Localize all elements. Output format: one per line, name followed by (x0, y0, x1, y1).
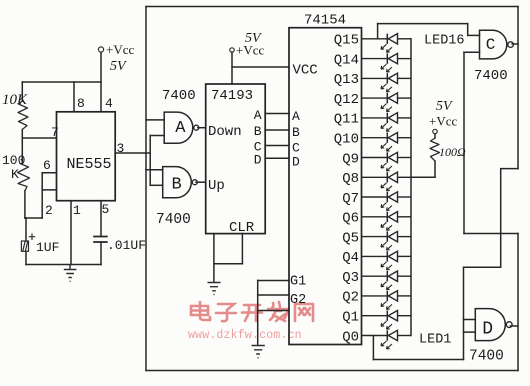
ground symbol (555, pin1 rail) (64, 265, 77, 282)
wire 100K bottom lead (24, 191, 26, 218)
svg-text:LED16: LED16 (424, 34, 465, 49)
gate U4C 7400 NAND C (480, 30, 507, 59)
svg-text:C: C (486, 36, 496, 54)
svg-text:100: 100 (2, 153, 25, 168)
svg-text:7400: 7400 (474, 68, 508, 84)
wire pin 6 (42, 172, 56, 174)
svg-text:5: 5 (102, 202, 110, 217)
svg-text:Q10: Q10 (334, 132, 359, 148)
LED9 on Q8 row: wire, cathode bar, triangle, arrows (362, 172, 412, 191)
watermark char 开 (242, 305, 262, 321)
svg-text:4: 4 (105, 96, 113, 111)
wire 1UF bottom lead (25, 252, 27, 265)
watermark char 网 (295, 304, 313, 321)
IC U1 NE555 body (57, 112, 116, 201)
wire jog right edge to inner vertical (501, 169, 518, 268)
wire 74193 CLR pin down (241, 234, 243, 264)
wire G2 (258, 294, 289, 296)
svg-text:74193: 74193 (211, 88, 253, 104)
wire pin 8 (73, 82, 75, 112)
svg-text:Q12: Q12 (334, 92, 359, 108)
wire data B 74193 to 74154 (265, 129, 289, 131)
resistor R2 100ohm zigzag (430, 138, 440, 161)
svg-text:A: A (254, 108, 262, 123)
svg-text:Q0: Q0 (342, 329, 359, 345)
wire pin 5 (100, 201, 102, 237)
svg-text:VCC: VCC (293, 63, 318, 79)
watermark char 电 (191, 302, 210, 320)
capacitor C1 1UF electrolytic plate (21, 241, 28, 251)
svg-text:1UF: 1UF (36, 240, 59, 255)
watermark char 发 (268, 302, 288, 321)
svg-text:1: 1 (73, 203, 81, 218)
resistor R2 100ohm leads (434, 134, 436, 178)
svg-text:Q2: Q2 (342, 290, 359, 306)
LED5 on Q4 row: wire, cathode bar, triangle, arrows (362, 251, 412, 270)
wire pin 3 output (115, 152, 150, 154)
wire pin 2 (42, 189, 56, 191)
wire gate D lower input (464, 331, 476, 333)
capacitor C1 plus sign (29, 234, 35, 241)
svg-text:LED1: LED1 (419, 333, 451, 348)
wire gate B lower input (150, 184, 163, 186)
wire data A 74193 to 74154 (265, 113, 289, 115)
svg-text:D: D (482, 320, 493, 340)
node +Vcc terminal (74193) (230, 48, 234, 52)
wire pin7 node down to 100K (21, 138, 23, 164)
svg-text:C: C (292, 141, 300, 156)
svg-text:100Ω: 100Ω (439, 145, 466, 159)
wire gate C lower input (464, 51, 480, 53)
svg-text:A: A (175, 119, 186, 138)
svg-text:Q14: Q14 (334, 52, 359, 68)
op... gate U4A 7400 NAND A (164, 112, 193, 143)
svg-text:D: D (254, 153, 262, 168)
LED12 on Q11 row: wire, cathode bar, triangle, arrows (362, 113, 412, 132)
svg-text:8: 8 (77, 96, 85, 111)
svg-text:7400: 7400 (469, 349, 504, 365)
svg-text:B: B (172, 176, 182, 195)
svg-text:G1: G1 (290, 275, 306, 290)
wire .01UF bottom lead (100, 242, 102, 265)
wire gate A upper input (146, 119, 164, 121)
svg-text:Q11: Q11 (334, 112, 359, 128)
wire pin 1 (70, 201, 72, 265)
svg-text:B: B (292, 125, 300, 140)
IC U3 74154 body (289, 28, 362, 345)
IC U2 74193 body (206, 84, 266, 234)
node +Vcc terminal (LED resistor) (433, 129, 437, 133)
wire Vcc top rail (555) (22, 81, 101, 83)
wire outer loop left edge (feedback bus) (145, 7, 147, 371)
wire gate B output to Up (196, 181, 206, 183)
LED14 on Q13 row: wire, cathode bar, triangle, arrows (362, 73, 412, 92)
wire data D 74193 to 74154 (265, 157, 289, 159)
LED3 on Q2 row: wire, cathode bar, triangle, arrows (362, 291, 412, 310)
svg-text:Q6: Q6 (342, 211, 359, 227)
svg-text:3: 3 (117, 141, 125, 156)
wire ground rail (555) (26, 264, 101, 266)
wire clock vertical to gates A,B (149, 136, 151, 186)
svg-text:.01UF: .01UF (107, 238, 146, 253)
svg-text:7: 7 (51, 125, 59, 140)
svg-text:7400: 7400 (156, 212, 191, 228)
LED2 on Q1 row: wire, cathode bar, triangle, arrows (362, 311, 412, 330)
wire gate D output (510, 325, 518, 327)
LED13 on Q12 row: wire, cathode bar, triangle, arrows (362, 93, 412, 112)
svg-text:Q4: Q4 (342, 250, 359, 266)
ground symbol (74193 CLR) (208, 283, 221, 295)
svg-text:Q1: Q1 (342, 310, 359, 326)
svg-text:10K: 10K (2, 92, 28, 108)
LED1 on Q0 row: wire, cathode bar, triangle, arrows (362, 330, 412, 349)
wire gate C output (512, 43, 518, 45)
svg-text:Q8: Q8 (342, 171, 359, 187)
wire G1 (258, 280, 289, 282)
wire pin6/pin2 tie vertical (41, 173, 43, 218)
svg-text:Q13: Q13 (334, 72, 359, 88)
svg-text:5V: 5V (245, 31, 262, 46)
wire data C 74193 to 74154 (265, 145, 289, 147)
svg-text:NE555: NE555 (67, 156, 112, 173)
LED7 on Q6 row: wire, cathode bar, triangle, arrows (362, 212, 412, 231)
wire gate D upper input (464, 319, 476, 321)
svg-text:Q5: Q5 (342, 230, 359, 246)
svg-text:Q7: Q7 (342, 191, 359, 207)
svg-text:K: K (11, 167, 19, 182)
svg-text:74154: 74154 (304, 13, 346, 29)
svg-text:CLR: CLR (229, 220, 255, 236)
svg-text:7400: 7400 (162, 88, 196, 104)
LED15 on Q14 row: wire, cathode bar, triangle, arrows (362, 53, 412, 72)
svg-text:2: 2 (45, 203, 53, 218)
wire 10K top lead (21, 82, 23, 101)
node +Vcc terminal (555) (98, 47, 103, 52)
ground symbol (74154 G1 G2) (252, 346, 265, 358)
wire drop to gate C upper input (467, 24, 469, 36)
wire latch crossover horizontal (464, 233, 518, 235)
wire gate A output to Down (198, 127, 206, 129)
svg-text:+Vcc: +Vcc (106, 42, 134, 57)
resistor R3 100K zigzag (18, 164, 30, 191)
wire gate C upper input (468, 34, 480, 36)
svg-text:G2: G2 (290, 293, 306, 308)
wire outer loop right edge lower (gate D output run) (517, 234, 519, 371)
LED11 on Q10 row: wire, cathode bar, triangle, arrows (362, 133, 412, 152)
wire outer loop top edge (146, 6, 518, 8)
wire +Vcc drop to 74193 (231, 52, 233, 84)
watermark char 子 (216, 304, 236, 321)
wire Vcc rail to 74154 (232, 66, 289, 68)
wire pin 7 (22, 137, 56, 139)
wire 74193 bottom pin to ground (213, 234, 215, 282)
wire tie below 74193 (214, 263, 243, 265)
wire outer loop bottom edge (146, 370, 518, 372)
LED10 on Q9 row: wire, cathode bar, triangle, arrows (362, 152, 412, 171)
capacitor C2 .01UF plates (93, 237, 108, 243)
wire Q0 to gate D horizontal (373, 359, 463, 361)
svg-text:Down: Down (208, 124, 242, 140)
svg-text:B: B (254, 124, 262, 139)
wire Q15 to gate C horizontal (378, 23, 468, 25)
resistor R1 10K zigzag (18, 101, 28, 130)
svg-text:Up: Up (208, 178, 225, 194)
LED4 on Q3 row: wire, cathode bar, triangle, arrows (362, 271, 412, 290)
gate U4B 7400 NAND B (163, 167, 192, 198)
wire 1UF top lead (25, 218, 27, 241)
wire gate C lower input feedback vertical (463, 52, 465, 233)
svg-text:www.dzkfw.com.cn: www.dzkfw.com.cn (188, 329, 302, 342)
wire gate B upper input (146, 169, 163, 171)
wire Q0 tap vertical (372, 336, 374, 360)
wire outer loop right edge upper (gate C output run) (517, 7, 519, 169)
svg-text:Q3: Q3 (342, 270, 359, 286)
LED8 on Q7 row: wire, cathode bar, triangle, arrows (362, 192, 412, 211)
wire G strobe third (258, 310, 289, 312)
wire +Vcc drop / pin 4 (100, 52, 102, 112)
svg-text:Q15: Q15 (334, 33, 359, 49)
wire G tie vertical to ground (257, 281, 259, 346)
svg-text:D: D (292, 155, 300, 170)
svg-text:Q9: Q9 (342, 151, 359, 167)
wire tie to cap node (25, 217, 42, 219)
svg-text:+Vcc: +Vcc (429, 114, 457, 129)
svg-text:A: A (292, 109, 300, 124)
wire gate A lower input (150, 135, 164, 137)
wire bus to resistor (411, 176, 435, 178)
wire Q15 tap vertical (377, 24, 379, 39)
svg-text:5V: 5V (436, 99, 453, 114)
wire LED anode bus (410, 39, 412, 336)
wire jog to gate D input (464, 267, 501, 359)
wire 10K bottom lead to pin7 node (21, 130, 23, 139)
LED16 on Q15 row: wire, cathode bar, triangle, arrows (362, 34, 412, 53)
svg-text:5V: 5V (110, 59, 127, 74)
gate U4D 7400 NAND D (475, 309, 505, 341)
LED6 on Q5 row: wire, cathode bar, triangle, arrows (362, 231, 412, 250)
svg-text:6: 6 (43, 158, 51, 173)
